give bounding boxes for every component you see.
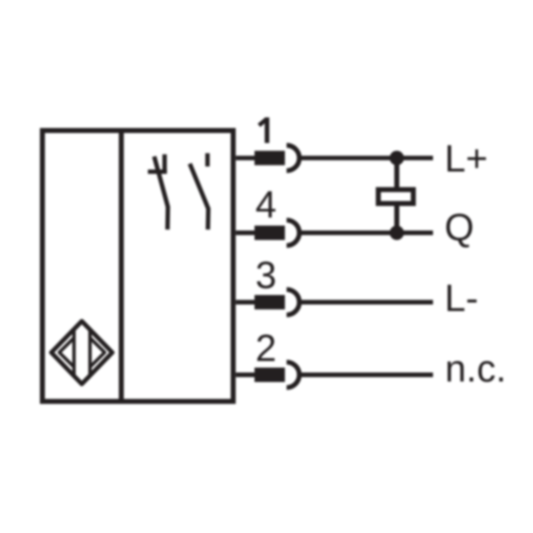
- NC contact S1 moving blade: [154, 156, 168, 229]
- sensor symbol left vertical bar: [72, 330, 75, 376]
- load resistor RL vertical lead top: [394, 158, 399, 190]
- wire pin4 to Q: [301, 231, 433, 236]
- svg-text:Q: Q: [445, 207, 475, 249]
- pin number 4: [255, 185, 276, 227]
- svg-text:L+: L+: [445, 139, 488, 181]
- svg-text:3: 3: [255, 255, 276, 297]
- pin 4 socket arc: [287, 220, 300, 245]
- load resistor RL body: [378, 190, 413, 204]
- net label L-: [445, 278, 479, 320]
- pin 1 terminal block: [255, 151, 285, 165]
- sensor body divider line: [119, 131, 124, 402]
- pin number 3: [255, 255, 276, 297]
- NC contact S1 seat bar: [148, 169, 167, 173]
- sensor body outline: [42, 131, 233, 402]
- pin number 2: [255, 328, 276, 370]
- pin 4 terminal block: [255, 226, 285, 240]
- wire pin3 from box: [236, 300, 255, 305]
- svg-text:2: 2: [255, 328, 276, 370]
- net label L+: [445, 139, 488, 181]
- pin 3 socket arc: [287, 290, 300, 315]
- junction dot on Q wire: [390, 226, 404, 240]
- svg-text:n.c.: n.c.: [445, 349, 506, 391]
- pin 2 terminal block: [255, 368, 285, 382]
- wire pin1 from box: [236, 156, 255, 161]
- junction dot on L+ wire: [390, 151, 404, 165]
- wire pin3 to L-: [301, 300, 433, 305]
- wire pin4 from box: [236, 231, 255, 236]
- NC contact S1 fixed terminal stub: [162, 154, 166, 171]
- pin 2 socket arc: [287, 362, 300, 387]
- load resistor RL vertical lead bottom: [394, 204, 399, 233]
- NO contact S2 fixed terminal stub: [205, 153, 209, 166]
- sensor symbol left triangle chevron: [59, 337, 74, 367]
- sensor symbol right vertical bar: [88, 330, 91, 376]
- pin 1 socket arc: [287, 145, 300, 170]
- sensor symbol right triangle chevron: [90, 337, 105, 367]
- wire pin2 from box: [236, 372, 255, 377]
- net label Q: [445, 207, 475, 249]
- pin 3 terminal block: [255, 295, 285, 309]
- svg-text:4: 4: [255, 185, 276, 227]
- NO contact S2 moving blade: [190, 164, 209, 230]
- wire pin2 to n.c.: [301, 372, 433, 377]
- wire pin1 to L+: [301, 156, 433, 161]
- pin number 1: [259, 117, 267, 143]
- svg-text:L-: L-: [445, 278, 479, 320]
- inductive sensor symbol rhombus: [51, 321, 112, 384]
- net label n.c.: [445, 349, 506, 391]
